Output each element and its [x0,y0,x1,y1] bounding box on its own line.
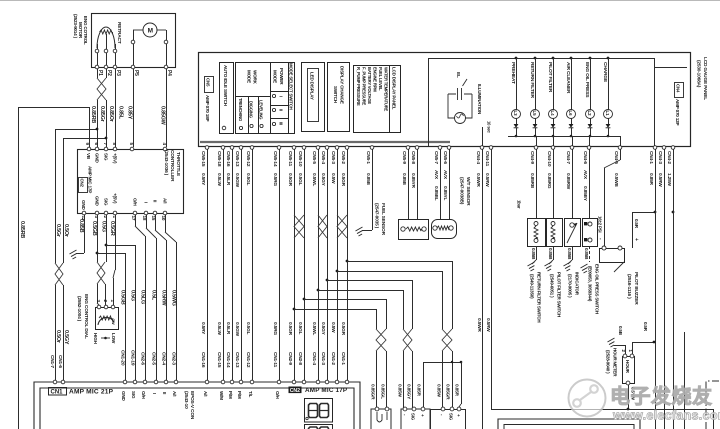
svg-text:MODE SELECT SWITCH: MODE SELECT SWITCH [289,63,294,110]
buzzer feed 0.5R [632,212,655,214]
lamp L5 RETURN FILTER [534,57,537,60]
svg-text:0.5GY: 0.5GY [320,322,326,336]
svg-text:AVX: AVX [442,170,448,180]
svg-text:0.5GL: 0.5GL [245,173,251,186]
svg-text:0.5GY: 0.5GY [320,173,326,187]
svg-text:CN5-12: CN5-12 [245,151,251,167]
svg-text:CN2-4: CN2-4 [161,352,167,365]
wire 0.85B pin12 to ground [84,215,86,253]
svg-text:CN5-3: CN5-3 [330,151,336,164]
option dash-dot boundary [706,381,720,429]
svg-text:0.5RW: 0.5RW [657,173,663,187]
svg-text:CHARGE: CHARGE [602,62,608,83]
svg-text:0.5WR: 0.5WR [475,173,481,187]
svg-text:SWITCH: SWITCH [333,86,338,104]
wire right extra [684,332,686,429]
crossover sensor1 pair [403,329,412,351]
EPOS controller box outer [34,382,360,429]
svg-text:0.5Gr: 0.5Gr [55,224,61,238]
connector label CN4 AMP 070 12P [675,83,684,98]
svg-text:FUEL SENSOR: FUEL SENSOR [380,203,386,236]
page border top [0,0,720,2]
svg-text:电子发烧友: 电子发烧友 [610,384,713,408]
svg-text:HIGH: HIGH [93,333,98,345]
connector label CN1 AMP MIC 21P [49,388,67,396]
lamp L1 CHARGE [607,57,610,60]
svg-text:0.85B: 0.85B [401,173,407,186]
svg-text:0.5RW: 0.5RW [484,173,490,187]
wire II jog [155,215,157,230]
svg-text:16±2 PSI: 16±2 PSI [598,216,603,232]
svg-text:AMP MIC 17P: AMP MIC 17P [305,387,347,394]
panel inner thick line [200,141,450,143]
lamp common bus to CN4-5 [508,136,620,138]
svg-text:O/H: O/H [133,198,138,206]
svg-text:BATTERY VOLTAGE: BATTERY VOLTAGE [367,67,372,104]
svg-text:0.5GW: 0.5GW [234,173,240,188]
svg-text:CN1-7: CN1-7 [49,355,55,368]
svg-text:0.85W: 0.85W [397,384,403,398]
connector label CN5 AMP 070 18P [205,77,214,93]
svg-text:AVX: AVX [582,170,588,180]
svg-text:0.85R: 0.85R [416,384,422,397]
feed line F [294,309,376,311]
mode select switch box [236,63,295,134]
svg-text:(2549-6051 ): (2549-6051 ) [550,274,555,298]
svg-text:CN4-2: CN4-2 [666,151,672,164]
wire P3 [115,69,117,147]
wire feed to GND pin [55,129,97,131]
svg-text:0.85B: 0.85B [78,219,84,233]
feed line A [347,261,452,263]
svg-text:1.25W: 1.25W [666,173,672,187]
hour meter ground leg [625,345,627,356]
svg-text:0.5GR: 0.5GR [287,322,293,336]
svg-text:CN1-6: CN1-6 [57,355,63,368]
svg-text:0.5GL: 0.5GL [297,173,303,186]
svg-text:www.elecfans.com: www.elecfans.com [612,409,720,423]
svg-text:0.5WL: 0.5WL [311,322,317,335]
svg-text:CN4-7: CN4-7 [565,151,571,164]
svg-text:L6: L6 [568,111,573,117]
svg-text:0.85GY: 0.85GY [406,384,412,400]
wire VB feed from left [18,107,89,109]
pressure sensor connector 2 [431,410,466,429]
svg-text:0.85W: 0.85W [436,384,442,398]
svg-text:LEVELING: LEVELING [259,100,264,119]
svg-text:+: + [633,238,639,241]
svg-text:ENG OIL PRESS: ENG OIL PRESS [584,62,590,98]
svg-text:0.85BL: 0.85BL [433,186,439,201]
svg-text:0.85Gr: 0.85Gr [99,106,105,123]
svg-text:1bar: 1bar [517,200,522,209]
feed line B [337,271,442,273]
svg-text:RETRACT: RETRACT [116,22,122,44]
svg-text:0.85YR: 0.85YR [410,173,416,189]
svg-text:AMP MIC 17P: AMP MIC 17P [88,166,93,193]
svg-text:CN4: CN4 [676,84,681,93]
svg-text:0.85Or: 0.85Or [108,106,114,123]
fuel sender connector [371,409,391,429]
svg-text:0.85L: 0.85L [118,106,124,120]
long wire 0.85RB left [18,107,20,429]
svg-text:CN5-2: CN5-2 [340,151,346,164]
svg-text:RETURN FILTER SWITCH: RETURN FILTER SWITCH [537,272,542,322]
svg-text:CN1-19: CN1-19 [130,350,136,366]
svg-text:AUTO IDLE SWITCH: AUTO IDLE SWITCH [223,65,228,107]
svg-text:CW: CW [111,319,115,326]
throttle bottom pins [82,211,86,215]
svg-text:0.85GL: 0.85GL [380,384,386,399]
lamp L6 AIR CLEANER [570,57,573,60]
svg-text:0.5RG: 0.5RG [272,173,278,186]
svg-text:+(5V): +(5V) [113,193,118,204]
wire CN4-5 0.5WB to buzzer [620,149,622,160]
svg-text:AVX: AVX [433,170,439,180]
svg-text:EL: EL [455,72,461,78]
wire I jog [146,215,148,228]
svg-text:0.85RB: 0.85RB [529,173,535,189]
svg-text:CN2-6: CN2-6 [140,352,146,365]
return filter pressure switch S1 [536,149,538,218]
svg-text:GND: GND [95,196,100,206]
svg-text:L5: L5 [532,111,537,117]
svg-text:CN1-15: CN1-15 [216,352,222,368]
svg-text:0.5GB: 0.5GB [120,290,126,305]
svg-text:0.5RY: 0.5RY [200,322,206,335]
svg-text:0.5G: 0.5G [101,221,107,232]
svg-text:GND: GND [95,153,100,163]
svg-text:SIG: SIG [104,153,109,161]
svg-text:RETURN FILTER: RETURN FILTER [529,62,535,99]
svg-text:I: I [144,202,149,203]
svg-text:0.5B: 0.5B [618,326,623,336]
svg-text:+(5V): +(5V) [113,153,118,164]
svg-text:CN1-14: CN1-14 [225,352,231,368]
wire 0.85R long [655,149,657,429]
svg-text:0.85R: 0.85R [454,384,460,397]
eng oil press switch S4 [589,149,591,218]
svg-text:PILOT BUZZER: PILOT BUZZER [633,272,639,305]
svg-text:CN2-9: CN2-9 [287,352,293,365]
svg-text:ENG CONTROL DIAL: ENG CONTROL DIAL [83,294,89,339]
svg-text:CN5-5: CN5-5 [311,151,317,164]
svg-text:(2170-9005 ): (2170-9005 ) [568,274,573,298]
svg-text:SIG: SIG [131,391,136,399]
svg-text:CN5-16: CN5-16 [225,151,231,167]
svg-text:CN4-9: CN4-9 [529,151,535,164]
svg-text:PILOT FILTER: PILOT FILTER [547,62,553,93]
illumination wire to CN4-4 [482,127,484,146]
svg-text:0.5GR: 0.5GR [287,173,293,187]
svg-text:0.85RB: 0.85RB [19,221,25,238]
svg-text:R_PUMP PRESSURE: R_PUMP PRESSURE [356,67,361,106]
svg-text:PILOT FILTER SWITCH: PILOT FILTER SWITCH [557,272,562,317]
svg-text:0.5WB: 0.5WB [613,173,619,187]
svg-text:CN1-12: CN1-12 [245,352,251,368]
throttle controller U1 box [78,150,184,214]
power mode options I II III [272,94,275,97]
svg-text:AMP 070 18P: AMP 070 18P [205,95,210,121]
svg-text:(2547-9035 ): (2547-9035 ) [374,203,380,229]
svg-text:SIG: SIG [449,413,454,421]
motor coil pins [95,49,99,53]
svg-text:I: I [152,393,157,394]
panel bottom edge pins [205,146,209,150]
svg-text:0.85YL: 0.85YL [442,186,448,201]
svg-text:0.5WR: 0.5WR [476,318,482,332]
fuel sensor wires [408,149,410,219]
wire P5 [133,69,135,147]
switch pin stubs [536,136,538,146]
EPOS controller box inner [40,388,354,429]
svg-text:0.85B: 0.85B [365,173,371,186]
svg-text:WATER TEMPERATURE: WATER TEMPERATURE [384,67,389,112]
svg-text:M: M [148,28,153,35]
lamp L4 PILOT FILTER [552,57,555,60]
wire P4 [166,69,168,147]
wire A/I jog [165,215,167,232]
svg-text:CN1-20: CN1-20 [120,350,126,366]
svg-text:0.5GB: 0.5GB [91,221,97,236]
svg-text:10 sec: 10 sec [487,121,492,133]
svg-text:CN1-13: CN1-13 [234,352,240,368]
svg-text:CN4-3: CN4-3 [657,151,663,164]
bottom right box [498,419,640,429]
watermark logo [568,379,606,417]
svg-text:(2549-11350): (2549-11350) [530,274,535,299]
svg-text:0.5WG: 0.5WG [171,290,177,306]
gauge sub-panel left divider [428,58,430,146]
svg-text:LOW: LOW [111,333,116,344]
svg-text:ILLUMINATION: ILLUMINATION [477,84,482,115]
svg-text:CN5-8: CN5-8 [410,151,416,164]
wire O/H jog [135,215,137,226]
fuel sensor R1 symbol [399,220,429,240]
svg-text:(2543-10: (2543-10 [183,391,189,409]
wire CN1-20 0.5GB [125,253,127,382]
svg-text:MODE: MODE [247,70,252,83]
svg-text:CN4-1: CN4-1 [648,151,654,164]
cn5 wire bundle right with dots [294,149,296,380]
wire 0.5GR pin1 [115,215,117,270]
svg-text:0.5LW: 0.5LW [216,322,222,336]
bottom bus wire [491,409,713,411]
svg-text:P/M: P/M [228,391,233,399]
seven segment display block 1 [305,399,333,423]
connector label CN2 AMP MIC 17P [79,178,88,193]
svg-text:CN2: CN2 [290,388,300,394]
wire 0.5GB pin3 [97,215,99,262]
svg-text:WORK: WORK [253,70,258,85]
svg-text:0.5GL: 0.5GL [245,322,251,335]
svg-text:CN4-6: CN4-6 [582,151,588,164]
auto idle switch box [220,63,234,134]
svg-text:CN2-5: CN2-5 [151,352,157,365]
connector label CN2 AMP MIC 17P [289,387,302,394]
svg-text:0.85RW: 0.85RW [565,173,571,190]
svg-text:PREHEAT: PREHEAT [510,62,516,84]
svg-text:0.85GR: 0.85GR [445,384,451,400]
wire 0.5RW right long [664,149,666,429]
svg-text:W/M: W/M [219,391,224,400]
svg-text:CN1-3: CN1-3 [320,352,326,365]
pilot buzzer BZ1 [600,249,625,263]
svg-text:II: II [162,392,167,394]
svg-text:0.5RY: 0.5RY [200,173,206,186]
svg-text:CN1-1: CN1-1 [340,352,346,365]
svg-text:SIG: SIG [411,413,416,421]
svg-text:FUEL LEVEL: FUEL LEVEL [378,67,383,91]
seven segment display block 2 [305,425,333,429]
svg-text:CN5-1: CN5-1 [365,151,371,164]
svg-text:AIR CLEANER: AIR CLEANER [565,62,571,94]
svg-text:0.5GR: 0.5GR [340,173,346,187]
svg-text:0.5GY: 0.5GY [63,330,69,345]
wire 0.5WR long [482,149,484,429]
throttle top pins [87,147,91,151]
svg-text:(2530-1068A): (2530-1068A) [696,60,702,88]
svg-text:(2523-9014 ): (2523-9014 ) [73,14,78,39]
svg-text:CN4-11: CN4-11 [484,151,490,167]
indicator sender S3 [572,149,574,218]
motor box bottom pins P1 P2 P3 P5 P4 [95,65,99,69]
feed line E [304,299,386,301]
svg-text:CN1-2: CN1-2 [330,352,336,365]
left vertical wires to dial [55,129,57,263]
CN1 pins row [53,380,57,384]
svg-text:CN5-13: CN5-13 [234,151,240,167]
hour meter return wire [628,385,630,409]
svg-text:O/H: O/H [275,391,280,399]
svg-text:(E09053, 3058344): (E09053, 3058344) [588,266,593,302]
svg-text:HOUR METER: HOUR METER [613,348,618,377]
svg-text:LED DISPLAY: LED DISPLAY [310,72,315,100]
svg-text:0.85GW: 0.85GW [160,106,166,126]
svg-text:I: I [279,96,284,97]
svg-text:0.85B: 0.85B [584,248,589,260]
wire 0.5G pin2 [106,215,108,262]
led display box [302,63,325,132]
svg-text:CN2: CN2 [80,179,85,188]
svg-text:(2552-1004 ): (2552-1004 ) [76,296,82,322]
svg-text:CN1-11: CN1-11 [272,352,278,368]
svg-text:0.85RG: 0.85RG [546,173,552,189]
svg-text:(2516-1116 ): (2516-1116 ) [626,274,632,299]
svg-text:CN2-3: CN2-3 [171,352,177,365]
dial potentiometer [98,317,114,325]
svg-text:CN1-16: CN1-16 [200,352,206,368]
svg-text:TRENCHING: TRENCHING [238,98,243,121]
svg-text:T/L: T/L [248,391,253,398]
svg-text:CN5-9: CN5-9 [401,151,407,164]
svg-text:DIGGING: DIGGING [249,101,254,118]
svg-text:0.5RW: 0.5RW [161,290,167,306]
svg-text:0.5LW: 0.5LW [216,173,222,187]
svg-text:THROTTLE: THROTTLE [175,152,181,177]
crossover fuel pair [376,329,386,351]
svg-text:0.5Or: 0.5Or [55,330,61,344]
svg-text:0.5RG: 0.5RG [272,322,278,335]
svg-text:0.5GW: 0.5GW [234,322,240,337]
svg-text:ENG OIL PRESS SWITCH: ENG OIL PRESS SWITCH [595,264,600,314]
svg-text:0.85BY: 0.85BY [582,186,588,202]
svg-text:CN4-10: CN4-10 [546,151,552,167]
svg-text:CN5-7: CN5-7 [433,151,439,164]
svg-text:CN5-14: CN5-14 [272,151,278,167]
svg-text:AMP 070 12P: AMP 070 12P [675,99,680,125]
svg-text:II: II [279,109,284,111]
svg-text:ENGINE RPM: ENGINE RPM [373,67,378,92]
svg-text:0.85Y: 0.85Y [127,106,133,120]
eng control motor box [92,14,176,68]
svg-text:EPOS-V CON: EPOS-V CON [189,391,195,420]
svg-text:(2543-1036 ): (2543-1036 ) [163,150,169,176]
hour meter feed [632,342,654,344]
svg-text:MODE: MODE [273,70,278,83]
svg-text:LCD GAUGE PANEL: LCD GAUGE PANEL [702,57,708,100]
display change switch box [328,63,350,132]
lcd display panel legend box [354,66,401,133]
svg-text:0.85GR: 0.85GR [370,384,376,400]
svg-text:A/I: A/I [172,391,177,396]
wire 1.25W long [673,149,675,429]
lamp L2 ENG OIL PRESS [589,57,592,60]
svg-text:0.5LR: 0.5LR [225,322,231,335]
svg-text:CN5-11: CN5-11 [287,151,293,167]
svg-text:L2: L2 [587,111,592,117]
svg-text:AMP MIC 21P: AMP MIC 21P [69,389,114,396]
wt sensor wires [440,149,442,219]
crossover sensor2 pair [442,329,452,351]
svg-text:III: III [279,122,284,125]
feed line D [318,290,403,292]
svg-text:0.5GL: 0.5GL [297,322,303,335]
svg-text:0.85B: 0.85B [567,248,572,260]
wt sensor R2 symbol [432,220,457,239]
svg-text:CN5-18: CN5-18 [216,151,222,167]
retract solenoid coil [97,27,115,48]
pressure sensor connector 1 [401,409,430,429]
svg-text:CN5: CN5 [206,78,211,87]
svg-text:L4: L4 [550,111,555,117]
svg-text:0.5R: 0.5R [634,219,639,229]
svg-text:0.5LG: 0.5LG [140,290,146,304]
wire CN1-19 0.5G [135,245,137,382]
svg-text:HOUR: HOUR [625,360,630,374]
pilot filter pressure switch S2 [553,149,555,218]
svg-text:W/T SENSOR: W/T SENSOR [465,177,471,206]
svg-text:CN4-4: CN4-4 [475,151,481,164]
lamp L3 PREHEAT [515,57,518,60]
svg-text:P/M: P/M [237,391,242,399]
svg-text:0.5G: 0.5G [130,290,136,301]
svg-text:0.5L: 0.5L [151,290,157,301]
svg-text:0.85RB: 0.85RB [90,106,96,123]
svg-text:INDICATOR: INDICATOR [575,272,580,296]
gauge panel inner power line [654,58,656,146]
svg-text:LCD DISPLAY PANEL: LCD DISPLAY PANEL [392,67,397,110]
cn5 wire bundle left [207,149,209,380]
svg-text:(2547-9038B): (2547-9038B) [459,177,465,205]
power tee line to sensors [423,362,461,364]
svg-text:0.5RW: 0.5RW [485,318,491,332]
svg-text:0.85B: 0.85B [531,248,536,260]
svg-text:DISPLAY CHANGE: DISPLAY CHANGE [340,66,345,104]
svg-text:CN2-8: CN2-8 [297,352,303,365]
svg-text:0.5W: 0.5W [330,173,336,184]
svg-text:0.5Or: 0.5Or [63,224,69,238]
